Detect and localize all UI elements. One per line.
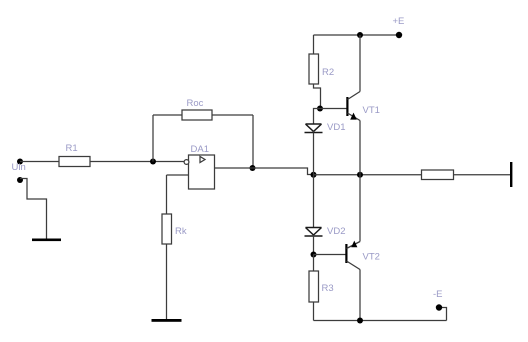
resistor R2 (309, 54, 319, 84)
wire (314, 84, 321, 109)
wire (166, 244, 168, 319)
resistor Rload (422, 170, 454, 180)
node junction J8 (357, 318, 363, 324)
wire (314, 174, 422, 176)
wire (253, 168, 314, 175)
node junction J4 (357, 172, 363, 178)
wire (320, 108, 347, 110)
wire (314, 320, 447, 322)
svg-text:+E: +E (393, 16, 405, 27)
wire (252, 115, 254, 168)
svg-text:Roc: Roc (187, 98, 204, 109)
op-amp DA1 (184, 155, 214, 189)
svg-text:-E: -E (433, 289, 443, 300)
wire (314, 109, 321, 125)
node junction J3 (311, 172, 317, 178)
wire (454, 174, 511, 176)
wire (152, 115, 154, 162)
wire (215, 167, 253, 169)
terminal output bar (510, 162, 512, 187)
wire (153, 114, 182, 116)
resistor Rk (162, 214, 172, 244)
diode VD2 (305, 228, 323, 237)
svg-text:DA1: DA1 (191, 144, 209, 155)
transistor VT2 (345, 241, 360, 270)
svg-text:VT2: VT2 (363, 252, 380, 263)
ground (32, 239, 61, 242)
terminal +E (396, 32, 402, 38)
terminal Uin top (17, 159, 23, 165)
diode VD1 (305, 124, 323, 133)
wire (359, 121, 361, 175)
node junction J7 (311, 252, 317, 258)
node junction J5 (357, 32, 363, 38)
wire (313, 236, 315, 255)
wire (314, 254, 346, 256)
wire (359, 175, 361, 242)
terminal Uin bottom (17, 177, 23, 183)
wire (313, 255, 315, 272)
wire (313, 175, 315, 228)
wire (313, 35, 315, 54)
svg-text:Rk: Rk (175, 226, 187, 237)
svg-text:VT1: VT1 (363, 105, 380, 116)
svg-text:VD1: VD1 (327, 122, 345, 133)
svg-text:VD2: VD2 (327, 226, 345, 237)
svg-text:R2: R2 (322, 67, 334, 78)
resistor R1 (59, 157, 90, 167)
wire (439, 308, 447, 321)
wire (166, 175, 168, 214)
wire (359, 35, 361, 92)
ground (152, 319, 182, 322)
wire (90, 161, 184, 163)
wire (313, 133, 315, 175)
wire (167, 174, 189, 176)
node junction J6 (317, 106, 323, 112)
node junction J1 (150, 159, 156, 165)
terminal -E (436, 304, 442, 310)
transistor VT1 (346, 92, 360, 121)
wire (20, 179, 47, 239)
node junction J2 (250, 165, 256, 171)
wire (314, 34, 400, 36)
svg-text:Uin: Uin (12, 162, 26, 173)
resistor Roc (182, 110, 212, 120)
wire (212, 114, 253, 116)
resistor R3 (309, 271, 319, 302)
wire (20, 161, 59, 163)
wire (359, 270, 361, 321)
wire (313, 302, 315, 321)
svg-text:R1: R1 (66, 143, 78, 154)
svg-text:R3: R3 (322, 283, 334, 294)
